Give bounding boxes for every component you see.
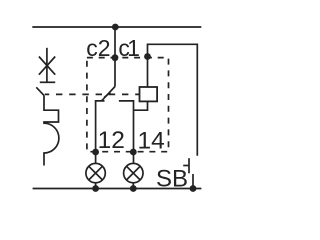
- wire NC throw to terminal 12: [96, 101, 105, 163]
- wire lamp HL2 to rail: [132, 183, 134, 189]
- circuit breaker QF: [36, 48, 59, 166]
- node terminal c2: [112, 54, 119, 61]
- svg-text:12: 12: [98, 127, 125, 154]
- wire bottom return rail: [33, 188, 202, 190]
- wire c1 to coil: [147, 57, 149, 88]
- coil K: [140, 87, 158, 101]
- node terminal 12: [92, 149, 99, 156]
- node top rail junction: [112, 24, 119, 31]
- wire NO throw to terminal 14: [119, 101, 134, 163]
- node SB rail junction: [190, 185, 197, 192]
- node lamp HL2 rail junction: [130, 185, 137, 192]
- wire c1 bypass to button SB: [148, 44, 198, 156]
- node terminal c1: [144, 53, 151, 60]
- svg-text:SB: SB: [156, 166, 188, 193]
- svg-text:c2: c2: [86, 35, 110, 61]
- lamp HL1: [86, 163, 105, 182]
- node lamp HL1 rail junction: [92, 185, 99, 192]
- wire coil bottom to terminal 14: [134, 101, 148, 110]
- svg-text:c1: c1: [118, 35, 139, 61]
- wire common from rail to contact: [114, 27, 116, 87]
- node terminal 14: [130, 149, 137, 156]
- wire top supply rail: [32, 26, 201, 28]
- svg-text:14: 14: [138, 127, 165, 154]
- pushbutton SB: [183, 158, 193, 188]
- contact block boundary (dashed box): [87, 58, 169, 152]
- wire lamp HL1 to rail: [95, 183, 97, 189]
- lamp HL2: [124, 163, 143, 182]
- wire mechanical linkage (dashed): [45, 93, 140, 95]
- contact blade K: [102, 87, 116, 101]
